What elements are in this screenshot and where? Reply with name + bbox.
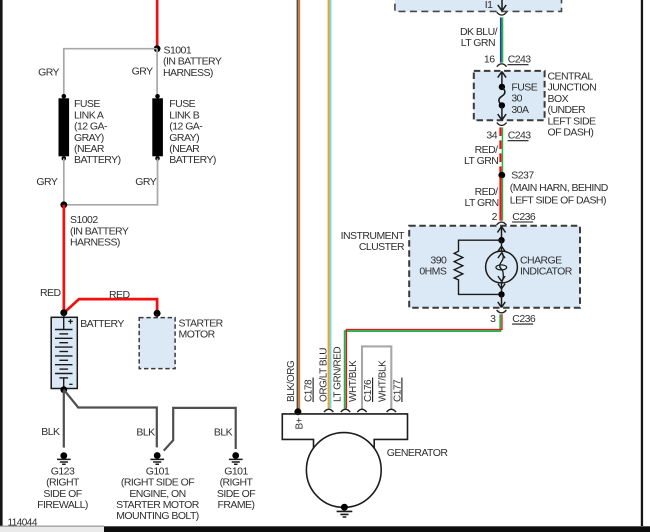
wire RED/LT GRN dashed red over green C243 to S237 (502, 127, 504, 172)
arrow up into cluster (497, 227, 505, 241)
svg-text:BATTERY): BATTERY) (74, 154, 121, 166)
svg-text:MOUNTING BOLT): MOUNTING BOLT) (116, 510, 199, 522)
arrow down to cluster edge (498, 294, 505, 307)
node cluster top junction (498, 237, 504, 243)
svg-text:ORG/LT BLU: ORG/LT BLU (319, 348, 330, 402)
connector terminal below I1 (497, 12, 507, 15)
svg-text:STARTER: STARTER (179, 318, 224, 330)
svg-text:CHARGE: CHARGE (520, 254, 562, 266)
wire BLK battery to G101 engine (64, 390, 157, 448)
svg-text:2: 2 (492, 211, 498, 223)
wire GRY fuse link B to S1002 (64, 158, 158, 204)
svg-text:LT GRN: LT GRN (464, 197, 498, 209)
svg-text:INSTRUMENT: INSTRUMENT (341, 230, 405, 242)
svg-text:JUNCTION: JUNCTION (548, 82, 597, 94)
svg-text:(12 GA-: (12 GA- (74, 121, 108, 133)
svg-text:DK BLU/: DK BLU/ (460, 26, 498, 38)
svg-text:GRY: GRY (135, 176, 156, 188)
svg-text:FUSE: FUSE (74, 98, 100, 110)
svg-text:FUSE: FUSE (511, 82, 537, 94)
svg-text:WHT/BLK: WHT/BLK (348, 360, 359, 402)
svg-text:34: 34 (486, 130, 497, 142)
svg-text:(RIGHT: (RIGHT (46, 477, 80, 489)
svg-text:C236: C236 (512, 211, 536, 223)
svg-text:MOTOR: MOTOR (179, 329, 216, 341)
central junction box (474, 71, 545, 120)
bottom black bar (104, 526, 650, 532)
svg-text:G101: G101 (146, 465, 170, 477)
svg-text:LT GRN: LT GRN (464, 155, 498, 167)
arrow down to junction box edge (498, 105, 506, 120)
wire RED battery to starter motor (64, 299, 157, 313)
connector terminal ORG/LT BLU at generator (324, 409, 333, 412)
connector terminal LT GRN/RED at generator (341, 409, 350, 412)
fuse link B (152, 94, 163, 161)
wire DK BLU/LT GRN (left blue, right green) (500, 17, 502, 62)
svg-text:(RIGHT: (RIGHT (220, 477, 254, 489)
wire LT GRN/RED from C236 pin 3 to generator: green part (345, 314, 501, 408)
connector terminal WHT/BLK C176 at generator (357, 409, 366, 412)
connector terminal C236 pin 2 (497, 222, 507, 225)
svg-text:GRY: GRY (38, 67, 59, 79)
ground G123 (57, 452, 71, 464)
component I1 box (top, partially visible) (395, 0, 562, 11)
wire GRY from S1001 to fuse link A (64, 49, 157, 96)
fuse link A (59, 94, 70, 161)
wire RED from top (156, 0, 159, 49)
svg-text:INDICATOR: INDICATOR (520, 266, 573, 278)
svg-text:G123: G123 (51, 465, 75, 477)
svg-text:C243: C243 (508, 54, 532, 66)
connector terminal C243 pin 16 (497, 64, 507, 67)
svg-text:WHT/BLK: WHT/BLK (378, 360, 389, 402)
svg-text:FIREWALL): FIREWALL) (37, 499, 88, 511)
svg-text:ENGINE, ON: ENGINE, ON (129, 488, 185, 500)
node battery negative terminal (60, 386, 67, 393)
svg-text:RED: RED (40, 287, 61, 299)
svg-text:(NEAR: (NEAR (169, 143, 200, 155)
svg-text:GENERATOR: GENERATOR (387, 447, 449, 459)
connector terminal C243 pin 34 (497, 123, 507, 126)
svg-text:G101: G101 (224, 465, 248, 477)
svg-text:BLK: BLK (214, 426, 233, 438)
generator body circle (306, 433, 381, 508)
svg-text:LT GRN: LT GRN (461, 37, 495, 49)
svg-text:GRAY): GRAY) (74, 132, 104, 144)
svg-text:S237: S237 (511, 170, 534, 182)
arrow up into junction box (498, 72, 506, 87)
wire GRY from S1001 to fuse link B (156, 49, 158, 96)
resistor 390 ohms branch (454, 240, 501, 294)
svg-text:30: 30 (511, 93, 522, 105)
svg-text:(UNDER: (UNDER (548, 104, 586, 116)
svg-text:(RIGHT SIDE OF: (RIGHT SIDE OF (121, 477, 194, 489)
svg-text:OF DASH): OF DASH) (548, 127, 594, 139)
svg-text:BLK: BLK (41, 426, 60, 438)
ground G101 engine (150, 452, 164, 464)
node B+ terminal dot (294, 408, 301, 415)
svg-text:B+: B+ (295, 417, 306, 429)
svg-text:FRAME): FRAME) (218, 499, 255, 511)
svg-text:(12 GA-: (12 GA- (169, 121, 203, 133)
label BLK/ORG wire (left black, right orange) (297, 0, 299, 412)
svg-text:CLUSTER: CLUSTER (359, 241, 405, 253)
node starter motor terminal (154, 310, 161, 317)
svg-text:BATTERY: BATTERY (80, 318, 124, 330)
wire BLK battery to G123 (63, 390, 65, 448)
svg-text:GRAY): GRAY) (169, 132, 199, 144)
arrow down inside I1 box (498, 0, 506, 11)
generator connector bar (282, 414, 407, 448)
svg-text:16: 16 (484, 54, 495, 66)
wire LT GRN/RED red stripe (346, 314, 502, 408)
svg-text:STARTER MOTOR: STARTER MOTOR (116, 499, 200, 511)
wire BLK G101 engine to G101 frame (164, 408, 236, 451)
svg-text:BLK/ORG: BLK/ORG (286, 360, 297, 402)
left page border (0, 0, 3, 526)
battery symbol (51, 317, 77, 388)
svg-text:C236: C236 (512, 313, 536, 325)
right page border (641, 0, 643, 526)
wire RED/LT GRN S237 to C236 (502, 178, 504, 221)
svg-text:LEFT SIDE: LEFT SIDE (548, 115, 597, 127)
svg-text:HARNESS): HARNESS) (70, 237, 120, 249)
splice S237 (498, 172, 505, 179)
wire RED S1002 to battery (63, 205, 66, 312)
bottom scrollbar light segment (0, 526, 104, 527)
node battery positive terminal (60, 309, 67, 316)
node cluster bottom junction (498, 291, 504, 297)
svg-text:GRY: GRY (132, 65, 153, 77)
svg-text:RED/: RED/ (475, 144, 499, 156)
svg-text:LT GRN/RED: LT GRN/RED (333, 347, 344, 402)
connector terminal WHT/BLK C177 at generator (387, 409, 396, 412)
fuse F30 element (499, 84, 505, 109)
svg-text:390: 390 (430, 254, 447, 266)
splice S1001 (154, 45, 161, 52)
svg-text:BATTERY): BATTERY) (169, 154, 216, 166)
svg-text:I1: I1 (485, 0, 493, 11)
svg-text:LEFT SIDE OF DASH): LEFT SIDE OF DASH) (510, 194, 606, 206)
splice S1002 (60, 201, 67, 208)
svg-text:30A: 30A (511, 104, 529, 116)
svg-text:FUSE: FUSE (169, 98, 195, 110)
svg-text:HARNESS): HARNESS) (163, 67, 213, 79)
svg-text:SIDE OF: SIDE OF (217, 488, 255, 500)
svg-text:BOX: BOX (548, 93, 569, 105)
svg-text:RED/: RED/ (475, 186, 499, 198)
svg-text:CENTRAL: CENTRAL (548, 71, 594, 83)
wire GRY fuse link A to S1002 (63, 158, 65, 204)
svg-text:SIDE OF: SIDE OF (43, 488, 81, 500)
starter motor box (139, 318, 175, 369)
svg-text:(MAIN HARN, BEHIND: (MAIN HARN, BEHIND (510, 182, 609, 194)
svg-text:LINK B: LINK B (169, 109, 200, 121)
wire ORG/LT BLU (left orange, right cyan) (328, 0, 330, 408)
instrument cluster box (409, 226, 580, 308)
svg-text:S1002: S1002 (70, 214, 98, 226)
svg-text:(IN BATTERY: (IN BATTERY (70, 225, 129, 237)
svg-text:(NEAR: (NEAR (74, 143, 105, 155)
svg-text:S1001: S1001 (164, 45, 192, 57)
svg-text:BLK: BLK (136, 426, 155, 438)
connector terminal C236 pin 3 (497, 310, 507, 313)
svg-text:114044: 114044 (8, 517, 38, 528)
charge indicator lamp (486, 240, 518, 294)
svg-text:(IN BATTERY: (IN BATTERY (163, 56, 222, 68)
svg-text:RED: RED (109, 289, 130, 301)
svg-text:3: 3 (490, 313, 496, 325)
svg-text:0HMS: 0HMS (419, 266, 447, 278)
wire WHT/BLK jumper loop C176 to C177 (362, 346, 391, 409)
svg-text:GRY: GRY (36, 176, 57, 188)
svg-text:LINK A: LINK A (74, 109, 104, 121)
ground G101 frame (229, 452, 243, 464)
ground at generator (337, 504, 353, 517)
svg-text:C243: C243 (508, 130, 532, 142)
